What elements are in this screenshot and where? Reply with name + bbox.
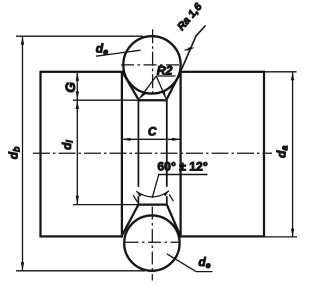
extension line d_a lower (right) [265, 236, 298, 238]
centerline top circle vertical [152, 29, 154, 96]
housing block right (gland half, right rectangle) [181, 72, 264, 237]
extension line bottom (d_b lower, tangent to bottom O-ring) [16, 270, 145, 272]
dimension C line [122, 138, 181, 140]
plug cylinder edge left (d_i surface) [137, 100, 139, 187]
dimension d_a line [292, 72, 294, 237]
svg-text:db: db [7, 146, 22, 159]
svg-text:C: C [148, 125, 157, 139]
surface finish tick arrowhead [188, 48, 195, 51]
angle arc left arrowhead [136, 190, 142, 197]
R2 leader right arrow line [156, 76, 166, 98]
svg-text:G: G [63, 82, 78, 93]
bottom groove bottom [138, 203, 166, 205]
housing block left (gland half, left rectangle) [41, 72, 122, 237]
svg-text:di: di [60, 140, 75, 150]
svg-text:da: da [275, 146, 290, 158]
extension line d_a upper (right) [265, 71, 297, 73]
plug cylinder edge right (d_i surface) [166, 100, 168, 187]
dimension G line [76, 72, 78, 100]
flank extension left (60deg reference) [133, 195, 138, 202]
svg-text:60° ± 12°: 60° ± 12° [157, 159, 207, 173]
extension line G / groove bottom (left) [73, 99, 139, 101]
R2 leader left arrow line [140, 76, 157, 98]
top groove right flank [166, 72, 181, 100]
dimension d_a arrow top [291, 72, 294, 81]
60deg leader slant [152, 175, 159, 198]
R2 leader shelf [156, 75, 175, 77]
angle arc right arrowhead [163, 190, 169, 197]
dimension d_i arrow bottom [76, 196, 79, 205]
dimension C arrow left [122, 138, 131, 141]
top groove left flank [122, 72, 139, 100]
svg-text:Ra 1,6: Ra 1,6 [175, 1, 204, 33]
top groove bottom [138, 99, 166, 101]
dimension C arrow right [172, 138, 181, 141]
dimension G arrow bottom [76, 91, 79, 100]
bottom groove left flank [121, 205, 138, 238]
centerline bottom circle vertical [151, 207, 153, 281]
dimension d_a arrow bottom [291, 229, 294, 237]
60deg leader shelf [158, 174, 208, 176]
dimension d_b arrow bottom [21, 262, 24, 271]
dimension d_b line [22, 36, 24, 271]
centerline main horizontal [33, 152, 272, 154]
svg-text:de: de [198, 255, 210, 270]
extension line d_i lower (left) [73, 204, 138, 206]
centerline top circle horizontal [121, 64, 184, 66]
extension line top (d_b upper, tangent to top O-ring) [16, 35, 143, 37]
d_e top leader [96, 50, 141, 56]
surface finish check tick [185, 49, 190, 50]
surface finish symbol Ra long leg [177, 26, 206, 81]
d_e bottom leader slant [167, 254, 196, 272]
dimension G arrow top [76, 72, 79, 81]
angle arc [136, 191, 169, 197]
O-ring top (cross-section circle) [123, 36, 180, 93]
R2 left arrowhead [139, 92, 146, 100]
svg-text:R2: R2 [157, 63, 173, 77]
dimension d_b arrow top [21, 36, 24, 45]
d_e bottom leader shelf [196, 271, 213, 273]
dimension d_i line [76, 100, 78, 204]
O-ring bottom (cross-section circle) [124, 215, 179, 270]
R2 right arrowhead [162, 91, 167, 100]
bottom groove right flank [167, 205, 181, 238]
flank extension right (60deg reference) [169, 194, 173, 201]
centerline bottom circle horizontal [126, 241, 179, 243]
dimension d_i arrow top [76, 101, 79, 110]
